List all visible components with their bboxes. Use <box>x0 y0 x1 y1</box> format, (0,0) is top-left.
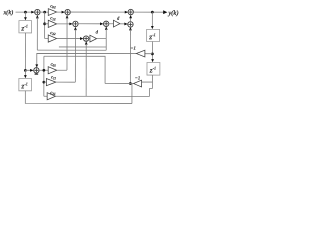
wire B3 bottom feed <box>129 29 131 83</box>
adder A3 <box>128 9 133 14</box>
svg-text:c22: c22 <box>50 30 56 36</box>
node T6 feed <box>42 81 45 84</box>
wire Z1R down <box>151 41 153 60</box>
wire T3 to D1 <box>57 38 83 40</box>
wire A3 to output <box>133 11 163 13</box>
wire A1 bottom feed <box>36 18 38 51</box>
wire L4 drop to T6 T7 <box>43 56 45 96</box>
adder C1 <box>34 68 39 73</box>
wire gain d to B3 <box>120 23 127 25</box>
arrowhead into Z2L <box>24 75 27 78</box>
arrowhead into A1 <box>31 11 34 14</box>
wire row2 from node to T2 <box>44 12 46 38</box>
adder B3 <box>128 22 133 27</box>
wire L1 <box>59 46 106 48</box>
wire L4 from inverter2 <box>44 56 105 83</box>
arrowhead into A3 bottom <box>129 15 132 18</box>
gain T7 <box>47 93 55 100</box>
delay Z2L <box>19 78 32 90</box>
arrowhead into B3 bottom <box>129 27 132 30</box>
wire C1 to T5 <box>39 69 48 71</box>
arrowhead into C1 <box>30 69 33 72</box>
wire T1 to A2 <box>57 11 64 13</box>
svg-text:d: d <box>96 29 99 34</box>
gain d <box>113 20 120 27</box>
adder D1 <box>83 36 88 41</box>
inverter gain I1 <box>136 50 145 57</box>
wire T7 along bottom to right riser <box>56 95 150 97</box>
wire B3 up to A3 <box>130 16 132 22</box>
wire D1 to T4 <box>89 38 90 40</box>
wire B1 to B2 <box>78 23 102 25</box>
svg-text:−1: −1 <box>130 45 135 50</box>
wire node to C1 <box>25 69 32 71</box>
arrowhead into Z1L <box>24 17 27 20</box>
wire Z1L to node x(k-1) <box>24 33 26 70</box>
gain T6 <box>46 79 56 86</box>
wire into T7 <box>44 95 47 97</box>
node y(k-1) <box>151 52 154 55</box>
arrowhead into B2 bottom <box>105 26 108 29</box>
wire A2 bottom feed from T5 <box>66 18 68 71</box>
gain T2 <box>48 20 56 27</box>
wire output down to Z1R <box>151 12 153 26</box>
svg-text:x(k): x(k) <box>3 9 14 16</box>
adder A1 <box>35 9 40 14</box>
arrowhead into A2 bottom <box>66 15 69 18</box>
arrowhead into Z1R <box>151 26 154 29</box>
delay Z1L <box>19 21 32 33</box>
wire Z2R output to inverter2 <box>142 81 153 83</box>
wire T3 feed corner <box>45 38 49 40</box>
arrowhead into A2 <box>62 11 65 14</box>
arrowhead into B1 bottom <box>74 27 77 30</box>
wire node to inverter1 <box>145 53 153 55</box>
arrowhead into B2 <box>100 22 103 25</box>
svg-text:−1: −1 <box>135 75 140 80</box>
node B3 feed on inverter2 line <box>129 82 132 85</box>
svg-text:d: d <box>117 16 120 21</box>
node row2 branch <box>43 22 46 25</box>
arrowhead into B1 <box>69 22 72 25</box>
arrowhead into D1 <box>80 37 83 40</box>
wire L3 from inverter1 <box>37 53 137 66</box>
wire into T6 <box>44 81 46 83</box>
arrowhead into D1 bottom <box>85 41 88 44</box>
node T5 feed crossing <box>42 69 45 72</box>
node x(k-1) <box>24 69 27 72</box>
wire input down to delay Z1L <box>24 12 26 19</box>
wire B2 to gain d <box>109 23 114 25</box>
wire B2 bottom feed <box>105 29 107 39</box>
svg-text:c12: c12 <box>50 15 56 21</box>
gain T4 <box>90 35 97 42</box>
arrowhead into B3 <box>124 23 127 26</box>
wire bottom riser to inverter row <box>131 84 133 104</box>
wire A1 to T1 <box>40 11 48 13</box>
delay Z1R <box>147 29 160 41</box>
wire B1 bottom feed from T6 <box>74 29 76 82</box>
adder B1 <box>73 21 78 26</box>
wire A2 to A3 <box>70 11 127 13</box>
arrowhead into Z2R <box>151 59 154 62</box>
gain T1 <box>48 9 56 16</box>
minus mark below C1 <box>35 74 39 75</box>
svg-text:c02: c02 <box>50 3 56 9</box>
wire T4 riser down <box>105 39 107 51</box>
delay Z2R <box>147 62 160 75</box>
arrowhead into A1 bottom <box>36 15 39 18</box>
gain T3 <box>48 35 56 42</box>
wire T5 to A2 riser <box>57 69 67 71</box>
wire into T2 <box>45 23 49 25</box>
wire L2 to A1 <box>37 49 106 51</box>
svg-text:y(k): y(k) <box>167 10 178 17</box>
wire right riser up to Z2R output <box>150 88 153 96</box>
svg-text:c11: c11 <box>51 74 56 80</box>
wire D1 bottom feed <box>85 44 87 96</box>
node input branch <box>24 11 27 14</box>
wire input to adder A1 <box>16 11 34 13</box>
inverter gain I2 <box>134 80 142 87</box>
adder A2 <box>65 9 70 14</box>
arrowhead output <box>163 10 167 14</box>
wire T6 to B1 riser <box>56 81 75 83</box>
wire T2 to B1 <box>57 23 72 25</box>
wire inverter2 output left <box>105 83 133 85</box>
arrowhead into A3 <box>125 11 128 14</box>
wire T4 to riser <box>97 38 107 40</box>
arrowhead into C1 top <box>35 64 38 67</box>
node output branch <box>151 11 154 14</box>
svg-text:c01: c01 <box>51 62 57 68</box>
wire Z2R down to corner <box>151 75 153 88</box>
adder B2 <box>103 21 108 26</box>
wire node down to delay Z2L <box>24 70 26 77</box>
node A1 output branch <box>43 11 46 14</box>
wire Z2L down and right along bottom <box>25 91 132 104</box>
gain T5 <box>48 67 57 74</box>
